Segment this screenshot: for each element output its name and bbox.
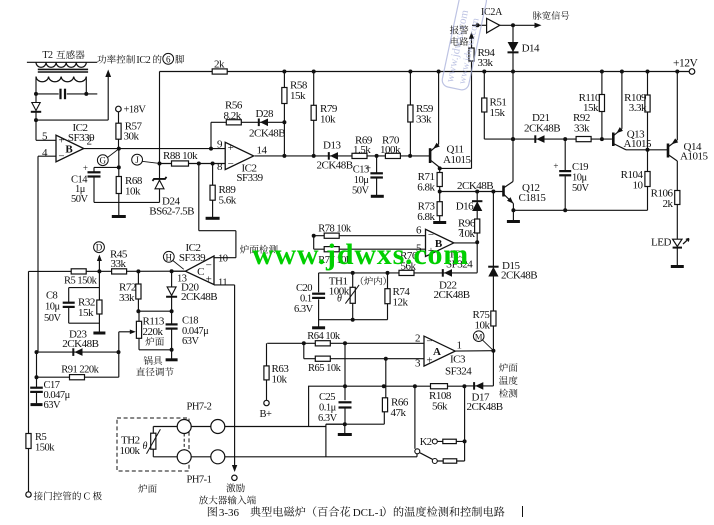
svg-text:10k: 10k xyxy=(320,114,336,126)
resistor R70 xyxy=(385,153,400,158)
svg-text:50V: 50V xyxy=(71,194,89,205)
capacitor C13 xyxy=(376,156,378,173)
ground under LED xyxy=(671,265,684,268)
transistor Q14 xyxy=(648,149,669,151)
svg-text:R64 10k: R64 10k xyxy=(307,331,341,342)
svg-text:10μ: 10μ xyxy=(572,173,588,184)
node G xyxy=(97,155,108,166)
svg-text:B: B xyxy=(65,144,73,156)
svg-text:BS62-7.5B: BS62-7.5B xyxy=(149,206,194,218)
svg-text:PH7-2: PH7-2 xyxy=(187,402,212,413)
capacitor C25 xyxy=(344,343,346,400)
wire pin4 xyxy=(38,155,56,157)
svg-text:+: + xyxy=(83,163,88,173)
resistor R64 xyxy=(315,341,330,346)
svg-text:C1815: C1815 xyxy=(519,192,547,204)
svg-text:+: + xyxy=(426,355,432,367)
wire R113/C18 bottom xyxy=(139,349,172,351)
svg-text:www.jdwxs.com: www.jdwxs.com xyxy=(252,238,469,271)
transistor Q12 xyxy=(502,186,505,197)
ground under R32 xyxy=(93,332,105,335)
resistor R96 xyxy=(476,219,478,243)
wire PH7-2 output xyxy=(225,426,326,428)
optocoupler PH7-2 xyxy=(177,420,191,434)
svg-text:0.1μ: 0.1μ xyxy=(319,402,337,413)
resistor R66 xyxy=(385,359,387,398)
watermark stamp xyxy=(441,0,488,91)
svg-text:220k: 220k xyxy=(143,326,164,338)
svg-text:2CK48B: 2CK48B xyxy=(457,180,493,192)
svg-text:2CK48B: 2CK48B xyxy=(62,338,98,350)
wire IC2B output xyxy=(83,148,225,150)
svg-text:33k: 33k xyxy=(119,292,135,304)
wire C14/R68 bottom xyxy=(94,201,160,203)
svg-text:SF339: SF339 xyxy=(179,252,206,264)
svg-text:14: 14 xyxy=(257,145,268,157)
svg-text:33k: 33k xyxy=(111,258,127,270)
resistor R51 xyxy=(483,72,485,140)
svg-text:C: C xyxy=(197,266,204,278)
wire pin5 xyxy=(36,139,56,141)
op-amp IC2 B xyxy=(56,135,84,162)
op-amp IC2A xyxy=(472,24,487,26)
svg-text:+: + xyxy=(58,135,64,147)
capacitor C20 xyxy=(312,293,325,295)
terminal B+ xyxy=(264,400,269,405)
transistor Q11 xyxy=(429,148,432,163)
resistor R58 xyxy=(283,72,285,156)
svg-text:2CK48B: 2CK48B xyxy=(434,289,470,301)
svg-text:PH7-1: PH7-1 xyxy=(187,474,212,485)
svg-text:63V: 63V xyxy=(44,400,62,411)
zener D24 xyxy=(159,164,161,203)
svg-text:63V: 63V xyxy=(182,336,200,347)
svg-text:D28: D28 xyxy=(256,108,274,120)
resistor R72 xyxy=(137,271,139,311)
ground under Q12 xyxy=(512,210,514,220)
svg-text:10: 10 xyxy=(633,180,644,192)
label surface temp detect xyxy=(499,363,508,372)
svg-text:47k: 47k xyxy=(391,407,407,419)
arrow to alarm circuit xyxy=(469,32,474,39)
capacitor C18 xyxy=(171,311,173,324)
svg-text:C20: C20 xyxy=(296,283,312,294)
diode D28 xyxy=(260,119,268,127)
diode D23 xyxy=(37,351,119,353)
svg-text:33k: 33k xyxy=(416,114,432,126)
label alarm circuit xyxy=(450,25,459,34)
label power-control pin6 xyxy=(97,55,106,64)
wire R65 row pin3 xyxy=(303,343,305,358)
svg-text:SF324: SF324 xyxy=(445,366,472,378)
wire PH7-1 output xyxy=(225,456,417,458)
ground under R68 xyxy=(118,202,120,215)
svg-text:A1015: A1015 xyxy=(443,154,471,166)
capacitor C17 xyxy=(36,377,38,387)
svg-text:−: − xyxy=(228,158,234,170)
node D xyxy=(94,242,105,253)
svg-text:+18V: +18V xyxy=(124,105,147,116)
svg-text:6.3V: 6.3V xyxy=(294,304,314,315)
svg-text:G: G xyxy=(100,156,107,166)
wire IC3A output xyxy=(454,350,493,352)
svg-text:R5: R5 xyxy=(35,432,47,443)
svg-text:0.1: 0.1 xyxy=(300,293,312,304)
transformer T2 xyxy=(27,61,97,63)
resistor R109 xyxy=(647,72,649,150)
svg-text:D: D xyxy=(96,243,103,253)
svg-text:D13: D13 xyxy=(323,140,341,152)
optocoupler PH7-1 xyxy=(177,450,191,464)
wire IC2-9/8 output xyxy=(255,155,431,157)
capacitor C14 xyxy=(118,149,120,168)
resistor R104 xyxy=(647,150,649,211)
svg-text:6.3V: 6.3V xyxy=(318,413,338,424)
svg-text:1: 1 xyxy=(457,340,462,352)
svg-text:C: C xyxy=(84,492,91,503)
resistor R57 xyxy=(118,112,120,149)
resistor R63 xyxy=(266,343,268,400)
wire R78 row pin6 xyxy=(314,235,426,237)
svg-text:10: 10 xyxy=(218,254,228,265)
caption xyxy=(208,507,217,517)
wire D22 row xyxy=(388,272,478,274)
label stove surface xyxy=(138,484,147,493)
resistor R77 xyxy=(324,247,339,252)
wire to pin6 arrow xyxy=(36,119,108,121)
wire K2 pole riser xyxy=(414,386,416,449)
ground under R73 xyxy=(433,221,446,224)
svg-text:C25: C25 xyxy=(319,392,335,403)
ground under C25 xyxy=(344,424,346,433)
node J xyxy=(132,154,143,165)
svg-text:2CK48B: 2CK48B xyxy=(501,270,537,282)
wire LED to ground xyxy=(676,249,678,266)
resistor R110 xyxy=(601,72,603,140)
diode T2 xyxy=(35,94,37,120)
resistor R68 xyxy=(118,167,120,202)
label PWM signal xyxy=(533,11,542,19)
diode D13 xyxy=(330,152,338,160)
svg-text:3.3k: 3.3k xyxy=(629,102,647,114)
diode D21 xyxy=(537,135,545,143)
wire pin4-column lower xyxy=(36,352,38,377)
ground under C17 xyxy=(31,403,43,406)
diode D14 xyxy=(512,25,514,181)
svg-text:15k: 15k xyxy=(78,307,94,319)
wire D17 to output node xyxy=(464,385,493,387)
svg-text:+: + xyxy=(553,161,558,171)
wire mid-lower row xyxy=(308,385,464,387)
svg-text:C8: C8 xyxy=(46,291,58,302)
capacitor C8 / resistor R32 loop xyxy=(98,271,100,287)
resistor K2 upper xyxy=(437,440,464,442)
wire IC3B output xyxy=(454,242,477,244)
svg-text:50V: 50V xyxy=(352,186,370,197)
svg-text:IC3: IC3 xyxy=(450,354,466,366)
resistor R92 xyxy=(576,137,591,142)
resistor R71 xyxy=(439,168,441,191)
svg-text:2CK48B: 2CK48B xyxy=(249,128,285,140)
svg-text:M: M xyxy=(475,332,483,342)
svg-text:6: 6 xyxy=(166,54,171,64)
svg-text:3-36: 3-36 xyxy=(219,507,240,519)
dashed box stove surface sensor xyxy=(117,418,189,471)
thermistor TH1 xyxy=(352,273,354,320)
wire R77 row pin5 xyxy=(314,248,426,250)
ground under R89 xyxy=(206,217,220,220)
svg-text:R91 220k: R91 220k xyxy=(61,365,99,376)
ground under C18 xyxy=(166,358,178,361)
op-amp IC2 pins9/8 xyxy=(225,142,253,169)
resistor R69 xyxy=(352,153,367,158)
svg-text:10μ: 10μ xyxy=(354,175,370,186)
svg-text:SF339: SF339 xyxy=(236,172,263,184)
ground under C13 xyxy=(371,195,384,198)
svg-text:10μ: 10μ xyxy=(45,302,61,313)
svg-text:R65 10k: R65 10k xyxy=(308,363,342,374)
svg-text:6.8k: 6.8k xyxy=(417,182,435,194)
wire Q11 collector to R94 xyxy=(440,167,472,169)
svg-text:−: − xyxy=(58,150,64,162)
svg-text:50V: 50V xyxy=(44,313,62,324)
svg-text:H: H xyxy=(166,252,173,262)
terminal drive amp input xyxy=(232,465,237,472)
wire main mid row xyxy=(29,270,186,272)
svg-text:IC2: IC2 xyxy=(136,55,150,66)
svg-text:T2: T2 xyxy=(42,50,53,61)
svg-text:LED: LED xyxy=(651,237,671,249)
transistor Q13 xyxy=(612,133,615,147)
op-amp IC3 B xyxy=(426,229,454,256)
svg-text:θ: θ xyxy=(337,294,342,305)
svg-text:10k: 10k xyxy=(475,320,491,332)
wire PH7 series link xyxy=(325,424,327,457)
resistor R56 xyxy=(226,120,241,125)
wire pin10 route xyxy=(214,257,236,259)
wire TH1 bottom row xyxy=(319,319,388,321)
wire R72/D20 bottom row xyxy=(138,310,171,312)
resistor R5 bottom + terminal xyxy=(28,271,30,491)
wire C25-ground row xyxy=(326,423,345,425)
svg-text:56k: 56k xyxy=(432,400,448,412)
diode D16 xyxy=(476,192,478,219)
wire PH7 middle link xyxy=(191,426,211,428)
resistor R79 xyxy=(313,72,315,156)
svg-text:2CK48B: 2CK48B xyxy=(524,123,560,135)
svg-text:θ: θ xyxy=(143,441,148,452)
svg-text:R78 10k: R78 10k xyxy=(318,224,352,235)
svg-text:D16: D16 xyxy=(456,201,474,213)
svg-text:B+: B+ xyxy=(260,409,273,420)
svg-text:A1015: A1015 xyxy=(680,151,708,163)
svg-text:R5 150k: R5 150k xyxy=(64,275,98,286)
resistor R73 xyxy=(439,192,441,222)
svg-text:2CK48B: 2CK48B xyxy=(467,401,503,413)
svg-text:150k: 150k xyxy=(35,443,55,454)
svg-text:SF339: SF339 xyxy=(68,132,95,144)
terminal +12V xyxy=(689,69,695,75)
svg-text:12k: 12k xyxy=(393,297,409,309)
capacitor T2 series xyxy=(59,89,61,100)
op-amp IC3 A xyxy=(424,336,455,366)
wire K2 right vertical xyxy=(464,386,466,461)
svg-text:2: 2 xyxy=(415,332,420,344)
svg-text:15k: 15k xyxy=(290,90,306,102)
svg-text:−: − xyxy=(426,336,432,348)
svg-text:15k: 15k xyxy=(490,107,506,119)
resistor 2k xyxy=(212,69,227,74)
zener D20 xyxy=(171,271,173,311)
resistor R88 xyxy=(172,161,189,166)
svg-text:+12V: +12V xyxy=(673,58,698,70)
thermistor TH2 xyxy=(151,433,156,449)
wire T2 secondary bottom xyxy=(36,93,59,95)
svg-text:11: 11 xyxy=(218,278,227,289)
resistor R45 xyxy=(112,269,127,274)
svg-text:J: J xyxy=(135,155,139,165)
wire IC2A output + PWM arrow xyxy=(500,24,539,26)
svg-text:5.6k: 5.6k xyxy=(219,195,237,207)
resistor R78 xyxy=(324,233,339,238)
wire R56 feedback loop xyxy=(210,122,212,148)
potentiometer R113 xyxy=(138,311,140,321)
svg-text:6.8k: 6.8k xyxy=(417,211,435,223)
resistor R65 xyxy=(315,356,330,361)
wire +12V top rail xyxy=(160,71,693,73)
svg-text:30k: 30k xyxy=(124,131,140,143)
wire R88 row xyxy=(160,163,226,165)
diode D17 xyxy=(475,382,483,390)
svg-text:+: + xyxy=(228,142,234,154)
svg-text:100k: 100k xyxy=(380,144,401,156)
node H xyxy=(163,251,174,262)
svg-text:−: − xyxy=(206,259,212,271)
label gate-control C terminal xyxy=(34,491,43,500)
wire base row Q12 xyxy=(440,191,504,193)
diode D22 xyxy=(444,269,452,277)
label stove-surface detect xyxy=(240,245,249,254)
wire pin4 down-left column xyxy=(37,156,39,352)
svg-text:C19: C19 xyxy=(572,162,588,173)
svg-text:15k: 15k xyxy=(583,102,599,114)
wire Q12 emitter row xyxy=(513,209,647,211)
svg-text:2CK48B: 2CK48B xyxy=(317,160,353,172)
resistor R76 xyxy=(399,270,414,275)
svg-text:100k: 100k xyxy=(120,445,141,457)
svg-text:2CK48B: 2CK48B xyxy=(181,291,217,303)
svg-text:10k: 10k xyxy=(125,186,141,198)
svg-text:8.2k: 8.2k xyxy=(224,110,242,122)
svg-text:33k: 33k xyxy=(574,123,590,135)
resistor R106 xyxy=(676,161,678,239)
wire C output xyxy=(172,270,186,272)
wire TH2 leads xyxy=(152,427,154,434)
svg-text:K2: K2 xyxy=(420,437,432,448)
terminal +18V xyxy=(116,106,122,112)
svg-text:1.5k: 1.5k xyxy=(353,144,371,156)
resistor R75 xyxy=(492,276,494,350)
svg-text:33k: 33k xyxy=(478,57,494,69)
resistor R59 xyxy=(409,72,411,156)
node M xyxy=(473,331,484,342)
capacitor C19 xyxy=(564,139,566,170)
wire pin11 route to drive terminal xyxy=(214,284,235,286)
wire TH1 top row xyxy=(319,272,388,274)
svg-text:C13: C13 xyxy=(353,165,369,176)
resistor R89 xyxy=(212,164,214,218)
wire rail left drop to R88 node xyxy=(159,72,161,164)
comparator IC2 C left-pointing xyxy=(185,256,214,285)
svg-text:2k: 2k xyxy=(214,59,225,71)
svg-text:A: A xyxy=(433,346,441,358)
svg-text:10k: 10k xyxy=(272,373,288,385)
diode D15 xyxy=(492,192,494,270)
wire R64 row pin2 xyxy=(267,342,424,344)
resistor R94 xyxy=(471,34,473,169)
svg-text:DCL-1: DCL-1 xyxy=(353,507,384,519)
svg-text:R88 10k: R88 10k xyxy=(163,150,198,162)
resistor R74 xyxy=(387,273,389,320)
label pot diameter adjust xyxy=(144,356,153,365)
ground under C20 xyxy=(312,326,325,329)
resistor R108 xyxy=(431,384,448,389)
svg-text:+: + xyxy=(206,274,212,286)
resistor R91 xyxy=(37,376,119,378)
svg-text:50V: 50V xyxy=(572,183,590,194)
svg-text:D14: D14 xyxy=(522,43,540,55)
wire base row Q13 xyxy=(484,138,612,140)
resistor R5 top xyxy=(71,269,86,274)
resistor K2 lower xyxy=(437,460,464,462)
svg-text:2k: 2k xyxy=(663,198,674,210)
LED xyxy=(673,239,682,246)
